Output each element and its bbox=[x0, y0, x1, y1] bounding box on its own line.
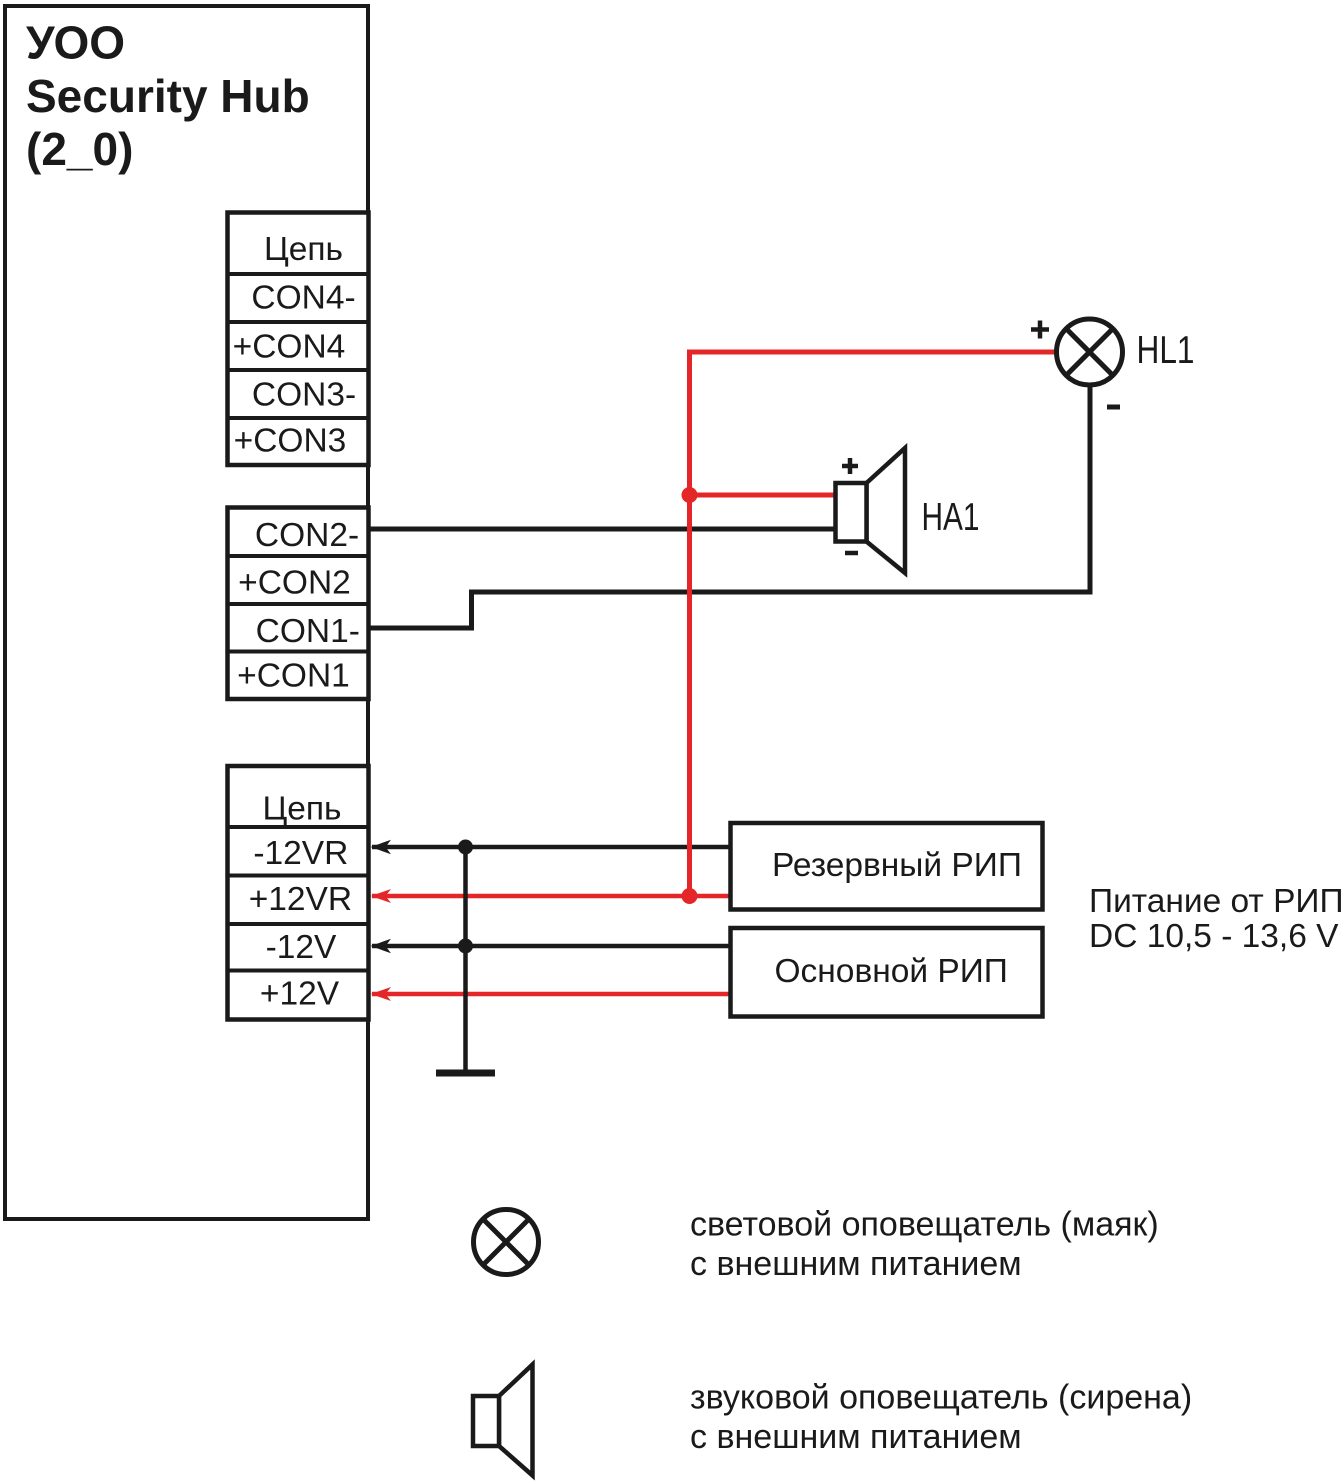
svg-text:CON4-: CON4- bbox=[251, 280, 355, 317]
svg-text:HA1: HA1 bbox=[922, 496, 980, 539]
HL1 minus mark bbox=[1107, 405, 1120, 410]
svg-text:-12V: -12V bbox=[266, 929, 337, 966]
junction at -12VR / ground rail bbox=[458, 840, 473, 855]
svg-text:+CON1: +CON1 bbox=[237, 658, 350, 695]
device box УОО Security Hub (2_0) bbox=[5, 6, 368, 1219]
svg-text:+CON3: +CON3 bbox=[234, 423, 347, 460]
svg-text:+CON2: +CON2 bbox=[238, 565, 351, 602]
red wire +12VR from Резервный РИП bbox=[371, 889, 731, 903]
terminal block power bbox=[228, 766, 369, 1020]
red junction at HA1 branch bbox=[682, 487, 698, 503]
svg-text:Основной РИП: Основной РИП bbox=[775, 953, 1008, 990]
svg-text:Цепь: Цепь bbox=[262, 791, 341, 828]
HA1 plus mark bbox=[842, 458, 858, 474]
svg-text:Резервный РИП: Резервный РИП bbox=[772, 847, 1022, 884]
red junction at +12VR rail bbox=[682, 888, 698, 904]
svg-text:+12VR: +12VR bbox=[249, 881, 352, 918]
svg-text:CON3-: CON3- bbox=[252, 377, 356, 414]
red wire branch to HA1 plus bbox=[690, 493, 838, 498]
HA1 minus mark bbox=[845, 551, 858, 556]
legend lamp symbol bbox=[474, 1210, 539, 1275]
svg-text:CON2-: CON2- bbox=[255, 517, 359, 554]
legend speaker symbol bbox=[473, 1365, 533, 1476]
terminal block CON4/CON3 bbox=[228, 213, 369, 466]
wire CON2- to HA1 minus bbox=[369, 527, 837, 532]
ground rail wire bbox=[463, 847, 468, 1073]
junction at -12V / ground rail bbox=[458, 939, 473, 954]
svg-text:Питание от РИПDC 10,5 - 13,6 V: Питание от РИПDC 10,5 - 13,6 V bbox=[1089, 883, 1342, 955]
terminal block CON2/CON1 bbox=[228, 508, 369, 700]
HL1 plus mark bbox=[1031, 321, 1049, 339]
svg-text:CON1-: CON1- bbox=[256, 613, 360, 650]
red wire +12VR rail to HL1 plus bbox=[690, 352, 1056, 896]
wire -12VR from Резервный РИП bbox=[371, 840, 732, 854]
svg-text:-12VR: -12VR bbox=[253, 835, 348, 872]
wire -12V from Основной РИП bbox=[371, 939, 732, 953]
wire CON1- to HL1 minus bbox=[369, 386, 1090, 628]
svg-text:Цепь: Цепь bbox=[264, 231, 343, 268]
lamp HL1 bbox=[1057, 319, 1123, 385]
svg-text:+12V: +12V bbox=[260, 976, 340, 1013]
svg-text:+CON4: +CON4 bbox=[233, 329, 346, 366]
svg-text:HL1: HL1 bbox=[1137, 329, 1195, 372]
box Резервный РИП bbox=[731, 823, 1043, 910]
box Основной РИП bbox=[731, 928, 1043, 1017]
speaker HA1 bbox=[836, 448, 906, 573]
ground bbox=[436, 1070, 495, 1077]
red wire +12V from Основной РИП bbox=[371, 987, 731, 1001]
